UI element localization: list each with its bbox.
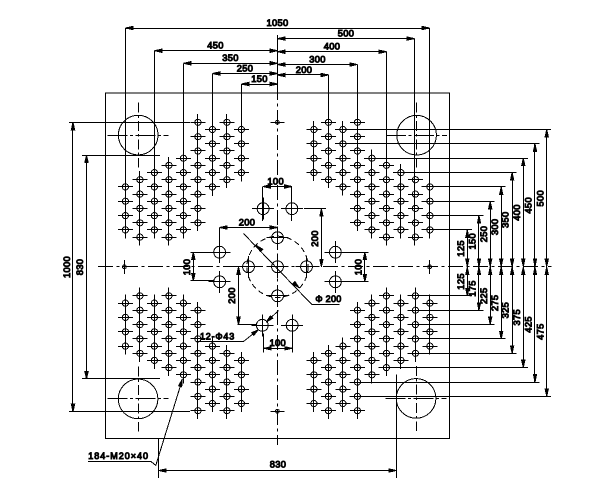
right dimension line pair 500/475: [546, 130, 548, 397]
svg-text:1050: 1050: [266, 18, 288, 28]
dimension 150: [242, 84, 278, 86]
svg-text:1000: 1000: [62, 256, 72, 278]
svg-text:275: 275: [490, 295, 500, 312]
dimension 200 top: [278, 74, 329, 76]
svg-text:100: 100: [182, 259, 192, 276]
top extension line x=212.4 (250): [212, 74, 214, 197]
svg-text:325: 325: [501, 302, 511, 319]
large tie-bar hole top-left: [118, 115, 158, 155]
right lower extension line y=353.3 (325): [408, 353, 517, 355]
top extension line x=328.4 (200): [328, 75, 330, 188]
svg-text:450: 450: [207, 41, 224, 51]
dimension 200 upper-left (center pattern): [219, 228, 221, 248]
dimension 300 top: [278, 64, 358, 66]
svg-text:225: 225: [479, 287, 489, 304]
dimension 250: [213, 73, 278, 75]
top extension line x=386.4 (400): [386, 52, 388, 246]
svg-text:500: 500: [338, 28, 355, 38]
left extension line y=379 (830 bottom): [82, 378, 160, 380]
top extension line x=357.4 (300): [357, 65, 359, 232]
dimension 200 upper-right vertical (center pattern): [304, 208, 326, 210]
svg-text:125: 125: [456, 273, 466, 290]
vertical centerline: [277, 35, 279, 445]
svg-text:500: 500: [535, 190, 545, 207]
dimension 350: [184, 63, 278, 65]
small pilot hole north: [270, 122, 284, 124]
right upper extension line y=215.6 (150): [422, 215, 484, 217]
svg-text:350: 350: [222, 53, 239, 63]
svg-text:Φ 200: Φ 200: [315, 294, 341, 304]
dimension 100 bottom (center pattern): [263, 333, 265, 352]
right lower extension line y=338.9 (275): [408, 338, 506, 340]
dimension 400 top: [278, 51, 387, 53]
left extension line y=155.2 (830 top): [82, 155, 160, 157]
right upper extension line y=172.6 (350): [393, 172, 517, 174]
right dimension line pair 450/425: [534, 144, 536, 382]
right lower extension line y=295.9 (125): [408, 295, 472, 297]
svg-text:830: 830: [270, 459, 287, 469]
svg-text:200: 200: [227, 287, 237, 304]
svg-text:250: 250: [479, 226, 489, 243]
svg-text:175: 175: [468, 280, 478, 297]
svg-text:184-M20×40: 184-M20×40: [88, 451, 149, 461]
right upper extension line y=158.2 (400): [364, 158, 528, 160]
svg-text:830: 830: [75, 259, 85, 276]
dimension 500 top: [278, 38, 415, 40]
bottom extension line x=158.7: [158, 439, 160, 479]
svg-text:200: 200: [310, 230, 320, 247]
small pilot hole south: [270, 411, 284, 413]
tapped hole cluster bottom-left (M20): [118, 287, 249, 419]
svg-text:100: 100: [267, 177, 284, 187]
svg-text:250: 250: [237, 63, 254, 73]
svg-text:100: 100: [353, 259, 363, 276]
tapped hole cluster bottom-right (M20): [306, 287, 437, 419]
right upper extension line y=143.8 (450): [335, 143, 540, 145]
locating ring circle phi200 (dashed): [247, 236, 308, 297]
right upper extension line y=201.2 (250): [422, 201, 495, 203]
svg-text:150: 150: [468, 233, 478, 250]
right lower extension line y=382.0 (425): [350, 382, 540, 384]
left extension line y=411.7 (1000 bottom): [69, 411, 190, 413]
tapped hole cluster top-right (M20): [306, 119, 437, 240]
svg-text:475: 475: [535, 323, 545, 340]
dimension 1050: [126, 28, 430, 30]
dimension 100 top (center pattern): [262, 187, 264, 222]
right upper extension line y=129.5 (500): [335, 129, 551, 131]
svg-text:400: 400: [324, 42, 341, 52]
right dimension line pair 125/125: [467, 230, 469, 296]
svg-text:400: 400: [512, 204, 522, 221]
svg-text:200: 200: [296, 65, 313, 75]
small pilot hole east: [429, 260, 431, 274]
svg-text:375: 375: [512, 309, 522, 326]
top extension line x=415.4 (500): [414, 39, 416, 246]
svg-text:150: 150: [251, 74, 268, 84]
dimension 1000 left: [72, 122, 74, 411]
right dimension line pair 400/375: [523, 158, 525, 367]
dimension 100 left (center pattern): [191, 252, 214, 254]
right dimension line pair 250/225: [490, 201, 492, 324]
large tie-bar hole bottom-right: [396, 379, 436, 419]
svg-text:200: 200: [239, 218, 256, 228]
center ejector hole pattern 12-phi43: [209, 198, 347, 337]
right dimension line pair 350/325: [512, 173, 514, 354]
right upper extension line y=229.9 (125): [422, 229, 472, 231]
horizontal centerline: [98, 266, 552, 268]
large tie-bar hole bottom-left: [118, 379, 158, 419]
dimension 450: [155, 50, 278, 52]
right upper extension line y=186.9 (300): [422, 186, 506, 188]
svg-text:125: 125: [456, 240, 466, 257]
svg-text:425: 425: [524, 316, 534, 333]
top extension line x=429.9 (1050 right / cluster col): [429, 28, 431, 239]
svg-text:300: 300: [309, 54, 326, 64]
dimension 100 right (center pattern): [344, 252, 369, 254]
svg-text:450: 450: [524, 197, 534, 214]
right dimension line pair 300/275: [501, 187, 503, 339]
top center extension x=277.5: [277, 39, 279, 88]
large tie-bar hole top-right: [397, 115, 437, 155]
svg-text:100: 100: [270, 338, 287, 348]
left extension line y=122.3 (1000 top): [69, 122, 190, 124]
dimension 200 lower-left vertical (center pattern): [238, 324, 257, 326]
top extension line x=125.4 (1050 left / cluster col): [125, 28, 127, 239]
right dimension line pair 150/175: [478, 216, 480, 311]
svg-text:350: 350: [501, 211, 511, 228]
top extension line x=183.4 (350): [183, 63, 185, 238]
svg-text:300: 300: [490, 219, 500, 236]
bottom extension line x=396.3: [396, 375, 398, 479]
right lower extension line y=324.6 (225): [408, 324, 495, 326]
top extension line x=241.4 (150): [241, 84, 243, 182]
right lower extension line y=367.6 (375): [379, 367, 528, 369]
tapped hole cluster top-left (M20): [118, 114, 249, 246]
right lower extension line y=310.2 (175): [408, 310, 484, 312]
top extension line x=154.4 (450): [154, 51, 156, 239]
svg-text:12-Φ43: 12-Φ43: [200, 331, 235, 341]
right lower extension line y=396.4 (475): [350, 396, 552, 398]
plate outline: [106, 93, 450, 439]
dimension 830 left: [86, 155, 88, 379]
small pilot hole west: [124, 260, 126, 274]
phi200 leader and label: [244, 234, 313, 305]
dimension 830 bottom: [159, 470, 397, 472]
